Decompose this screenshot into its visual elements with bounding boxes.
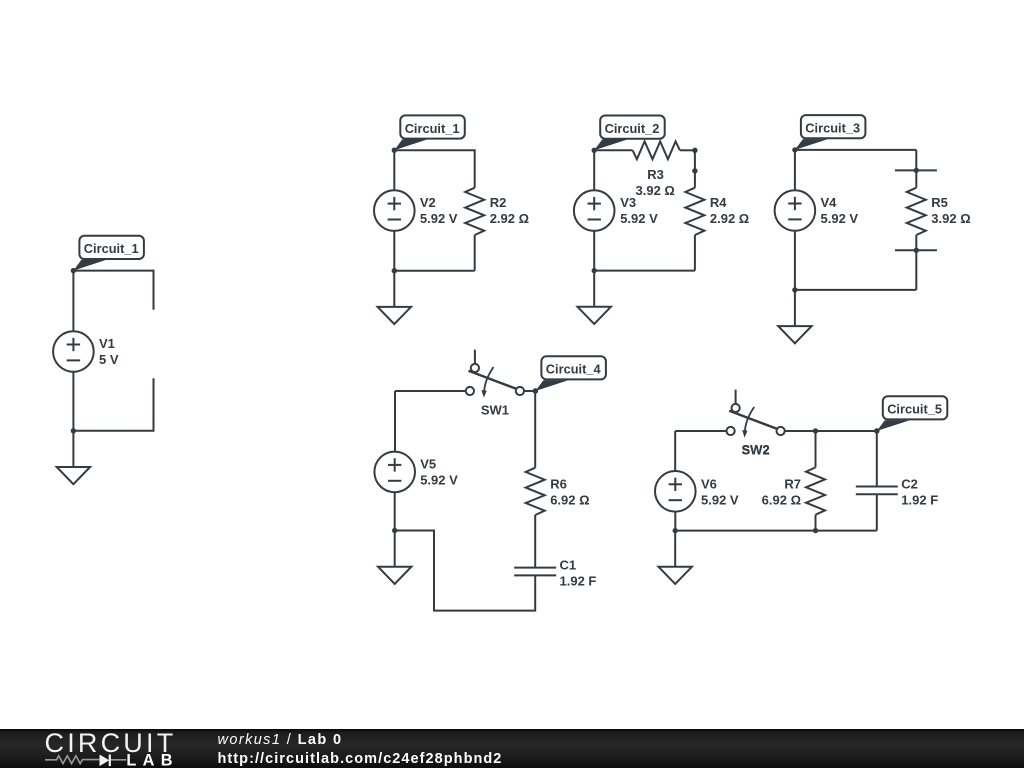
- svg-text:5.92 V: 5.92 V: [821, 211, 859, 226]
- svg-text:R2: R2: [490, 195, 507, 210]
- svg-text:R5: R5: [931, 195, 948, 210]
- svg-text:C2: C2: [901, 476, 918, 491]
- svg-text:5 V: 5 V: [99, 352, 119, 367]
- svg-text:C1: C1: [560, 557, 577, 572]
- svg-text:1.92 F: 1.92 F: [560, 573, 597, 588]
- svg-text:V6: V6: [701, 476, 717, 491]
- svg-text:5.92 V: 5.92 V: [620, 211, 658, 226]
- svg-text:3.92 Ω: 3.92 Ω: [931, 211, 970, 226]
- svg-text:SW2: SW2: [742, 442, 770, 457]
- svg-text:5.92 V: 5.92 V: [701, 492, 739, 507]
- svg-text:V3: V3: [620, 195, 636, 210]
- svg-text:3.92 Ω: 3.92 Ω: [636, 183, 675, 198]
- svg-text:Circuit_4: Circuit_4: [546, 362, 602, 377]
- svg-text:http://circuitlab.com/c24ef28p: http://circuitlab.com/c24ef28phbnd2: [218, 751, 503, 767]
- svg-text:R6: R6: [550, 476, 567, 491]
- svg-text:SW1: SW1: [481, 403, 509, 418]
- svg-text:Circuit_3: Circuit_3: [805, 121, 860, 136]
- svg-text:LAB: LAB: [126, 752, 178, 768]
- svg-text:R4: R4: [710, 195, 727, 210]
- svg-text:Circuit_1: Circuit_1: [84, 241, 139, 256]
- svg-text:2.92 Ω: 2.92 Ω: [710, 211, 749, 226]
- svg-text:6.92 Ω: 6.92 Ω: [762, 492, 801, 507]
- svg-text:V2: V2: [420, 195, 436, 210]
- svg-text:1.92 F: 1.92 F: [901, 492, 938, 507]
- svg-text:V5: V5: [420, 456, 436, 471]
- svg-text:Circuit_1: Circuit_1: [405, 121, 460, 136]
- svg-text:2.92 Ω: 2.92 Ω: [490, 211, 529, 226]
- svg-text:R3: R3: [647, 167, 664, 182]
- svg-text:workus1 / Lab 0: workus1 / Lab 0: [218, 732, 343, 748]
- svg-text:Circuit_2: Circuit_2: [605, 121, 660, 136]
- svg-text:V1: V1: [99, 336, 115, 351]
- svg-text:5.92 V: 5.92 V: [420, 211, 458, 226]
- svg-text:Circuit_5: Circuit_5: [887, 402, 942, 417]
- svg-text:R7: R7: [784, 476, 801, 491]
- svg-text:5.92 V: 5.92 V: [420, 472, 458, 487]
- svg-text:V4: V4: [821, 195, 838, 210]
- svg-text:6.92 Ω: 6.92 Ω: [550, 492, 589, 507]
